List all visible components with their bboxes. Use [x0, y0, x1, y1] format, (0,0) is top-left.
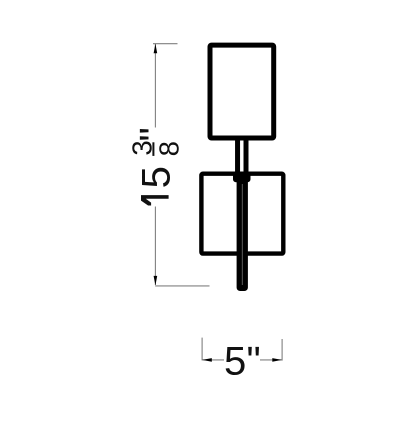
stem right line: [244, 140, 249, 174]
vertical dimension line lower segment: [154, 207, 156, 286]
horizontal dimension: left extension line: [201, 338, 203, 361]
dimension line left segment: [202, 359, 224, 361]
down arrowhead: [154, 276, 158, 286]
svg-text:8: 8: [154, 141, 185, 156]
left arrowhead: [202, 358, 212, 362]
collar fitting: [233, 173, 251, 183]
bottom extension line: [155, 285, 209, 287]
rod: [237, 175, 248, 291]
stem left line: [235, 140, 240, 174]
svg-text:": ": [132, 127, 176, 141]
rotated dimension label 15 3/8": [126, 127, 184, 188]
dimension line right segment: [260, 359, 282, 361]
rod center seam: [241, 184, 243, 285]
vertical dimension line upper segment: [154, 44, 156, 128]
digit 1 of 15 (drawn, rotated): [141, 195, 169, 205]
right arrowhead: [272, 358, 282, 362]
backplate (lower rectangle): [201, 174, 283, 254]
horizontal dimension: right extension line: [281, 339, 283, 361]
svg-text:5": 5": [224, 339, 261, 383]
vertical dimension: top extension line: [153, 43, 178, 45]
svg-text:5: 5: [134, 166, 178, 188]
lamp shade (top rectangle): [210, 45, 274, 138]
fraction bar: [152, 142, 154, 156]
up arrowhead: [154, 44, 158, 54]
